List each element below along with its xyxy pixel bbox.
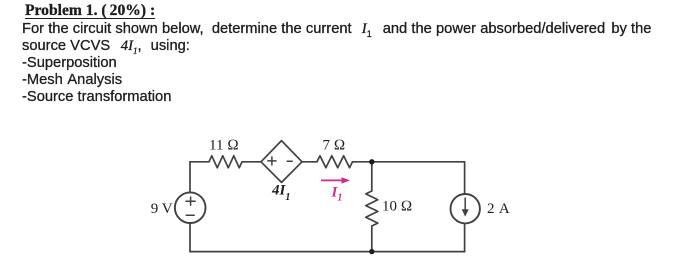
wire right vertical upper <box>464 162 466 194</box>
wire right vertical lower <box>464 223 466 251</box>
paragraph line 2 <box>22 38 190 56</box>
9V plus sign <box>186 197 195 205</box>
wire middle vertical lower <box>371 226 373 252</box>
svg-text:2 A: 2 A <box>487 201 510 217</box>
node dot bottom <box>369 249 374 254</box>
wire bottom <box>190 251 465 253</box>
wire VCVS to 7ohm <box>302 161 317 163</box>
VCVS plus sign <box>268 157 276 165</box>
VCVS minus sign <box>287 160 292 162</box>
bullet 3 <box>22 89 171 105</box>
wire left vertical upper <box>189 162 191 193</box>
bullet 1 <box>22 55 117 71</box>
bullet 2 <box>22 72 122 88</box>
svg-text:9 V: 9 V <box>151 201 173 217</box>
resistor 7ohm <box>317 156 353 168</box>
paragraph line 1 <box>22 21 662 39</box>
wire top-left segment <box>190 161 209 163</box>
wire middle vertical upper <box>371 162 373 191</box>
svg-text:I1: I1 <box>331 185 343 204</box>
title line <box>25 2 155 20</box>
2A arrow shaft <box>464 198 466 211</box>
resistor 11ohm <box>209 156 242 168</box>
svg-text:7 Ω: 7 Ω <box>323 138 346 154</box>
svg-text:11 Ω: 11 Ω <box>209 138 239 154</box>
resistor 10ohm <box>366 191 378 226</box>
node dot top <box>369 159 374 164</box>
wire left vertical lower <box>189 223 191 252</box>
wire 7ohm to top-right corner <box>353 161 465 163</box>
current source 2A circle <box>451 194 480 223</box>
svg-text:4I1: 4I1 <box>271 183 290 203</box>
svg-text:10 Ω: 10 Ω <box>382 199 412 215</box>
9V minus sign <box>186 214 194 216</box>
voltage source 9V circle <box>175 192 206 223</box>
wire resistor to VCVS <box>242 161 261 163</box>
dependent source VCVS 4I1 diamond <box>261 141 302 183</box>
current arrow I1 (pink) <box>321 177 350 183</box>
2A arrowhead <box>462 209 469 216</box>
